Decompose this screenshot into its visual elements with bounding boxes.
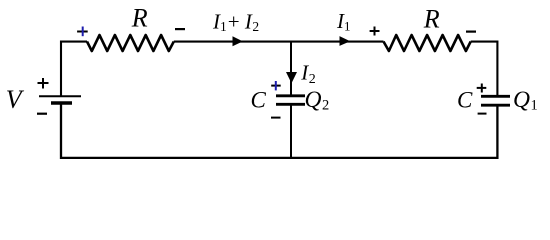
svg-text:I1: I1 (336, 9, 351, 34)
minus polarity of R2 (466, 31, 476, 33)
svg-text:I2: I2 (300, 61, 316, 88)
capacitor C2 bottom plate (276, 103, 305, 106)
wire middle junction to R2 (291, 41, 384, 43)
plus polarity of C1 (477, 84, 487, 93)
resistor R1 (87, 35, 174, 51)
svg-text:R: R (131, 4, 148, 33)
wire R1 to middle junction (174, 41, 291, 43)
wire R2 to top-right corner down to C1 (471, 42, 498, 95)
svg-text:Q1: Q1 (513, 87, 538, 114)
minus polarity of R1 (175, 28, 185, 30)
capacitor C1 bottom plate (481, 104, 510, 107)
plus polarity of battery (38, 78, 49, 89)
minus polarity of battery (37, 113, 47, 115)
svg-text:C: C (457, 87, 473, 112)
wire C1 to bottom-right corner (291, 105, 497, 158)
capacitor C1 top plate (481, 95, 510, 98)
battery V positive plate (39, 95, 81, 97)
current arrow I2 down (286, 72, 297, 83)
current arrow I1+I2 (233, 36, 243, 46)
svg-text:Q2: Q2 (305, 87, 330, 114)
wire bottom-left segment (61, 103, 291, 158)
minus polarity of C1 (478, 113, 487, 115)
capacitor C2 top plate (276, 94, 305, 97)
svg-text:R: R (423, 5, 440, 34)
plus polarity of R2 (370, 27, 380, 36)
wire middle junction down to C2 (290, 42, 292, 96)
svg-text:V: V (6, 85, 25, 114)
minus polarity of C2 (271, 117, 281, 119)
svg-text:I1+ I2: I1+ I2 (212, 10, 259, 35)
battery V negative plate (51, 101, 72, 105)
plus polarity of C2 (271, 81, 281, 90)
plus polarity of R1 (77, 27, 88, 37)
svg-text:C: C (251, 87, 267, 112)
wire C2 down to bottom wire (290, 104, 292, 158)
wire top-left corner to R1 (61, 42, 87, 97)
resistor R2 (384, 35, 471, 51)
current arrow I1 (340, 36, 351, 46)
